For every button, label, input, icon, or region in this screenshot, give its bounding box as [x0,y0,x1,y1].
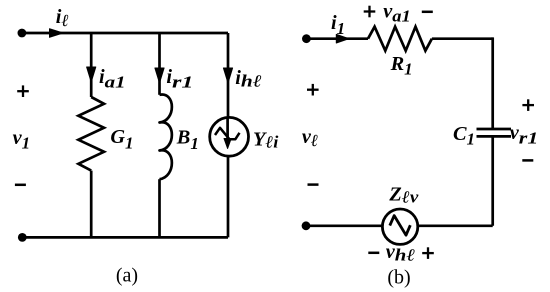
svg-text:B1: B1 [176,127,199,153]
node: bottom-left terminal dot (b) [302,221,311,230]
current arrow i_r1 [155,68,164,83]
node: top-left terminal dot (a) [18,29,27,38]
wire: branch G1 vertical top [90,33,93,97]
wire: bottom rail right segment (b) [417,224,493,227]
label plus (a) [17,85,29,97]
current arrow i_1 [336,34,349,43]
label minus (a) [15,184,26,187]
wire: bottom rail left segment (b) [306,224,383,227]
label plus (v_r1) [522,99,534,111]
current source Y_li circle [210,117,249,156]
svg-text:R1: R1 [390,53,413,79]
svg-text:G1: G1 [110,126,133,152]
svg-text:i1: i1 [331,12,345,38]
wire: branch Y vertical top [227,33,230,119]
current arrow i_a1 [87,67,96,82]
wire: right vertical lower (b) [491,136,494,225]
svg-text:ia1: ia1 [99,66,126,91]
svg-text:vr1: vr1 [510,122,539,148]
svg-text:Yℓi: Yℓi [253,129,279,152]
svg-text:iℓ: iℓ [56,6,69,30]
wire: top rail left segment (b) [306,37,368,40]
wire: branch Y vertical bottom [227,156,230,238]
svg-text:va1: va1 [383,0,411,25]
svg-text:ihℓ: ihℓ [235,67,262,91]
svg-text:vhℓ: vhℓ [386,241,416,265]
wire: top rail right segment (b) [432,37,493,40]
label minus (v_a1) [422,11,433,14]
wire: right vertical upper (b) [491,37,494,129]
svg-text:C1: C1 [453,123,475,148]
node: bottom-left terminal dot (a) [18,233,27,242]
svg-text:(a): (a) [116,265,138,287]
wire: top rail (a) [22,32,228,35]
current arrow i_hl [223,68,232,83]
wire: bottom rail (a) [22,236,228,239]
node: top-left terminal dot (b) [302,34,311,43]
svg-text:(b): (b) [387,266,410,288]
svg-text:ir1: ir1 [166,66,193,91]
label minus (v_hl) [368,252,379,255]
resistor R1 zigzag [368,27,432,51]
sine wave inside Y_li [215,128,240,140]
label plus (v_a1) [364,6,376,18]
wire: branch B1 vertical bottom [158,179,161,237]
voltage source Z_lv circle [382,209,417,244]
capacitor C1 top plate [477,128,512,131]
label plus (v_hl) [422,247,434,259]
sine wave inside Z_lv [390,216,411,236]
wire: branch B1 vertical top [158,33,161,95]
wire: branch G1 vertical bottom [90,171,93,238]
label minus (v_r1) [522,159,533,162]
capacitor C1 bottom plate [477,135,512,138]
label minus (b left) [308,183,319,186]
current arrow i_l on top rail [50,29,64,38]
svg-text:v1: v1 [13,127,31,153]
svg-text:vℓ: vℓ [302,126,318,150]
inductor B1 coil [160,95,172,180]
resistor G1 zigzag [78,97,104,171]
svg-text:Zℓv: Zℓv [388,184,418,207]
arrow inside Y_li [226,119,229,140]
label plus (b left) [307,84,319,96]
